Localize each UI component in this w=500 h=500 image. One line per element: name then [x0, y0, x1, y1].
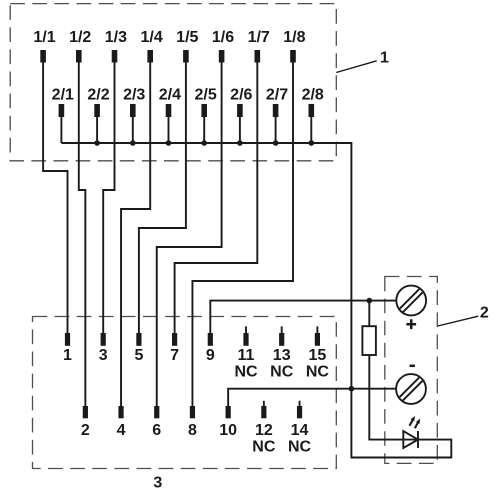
svg-text:2/6: 2/6 — [230, 87, 252, 104]
svg-text:12: 12 — [255, 422, 273, 439]
svg-text:1: 1 — [63, 347, 72, 364]
svg-text:2: 2 — [81, 422, 90, 439]
svg-text:6: 6 — [152, 422, 161, 439]
svg-text:2: 2 — [480, 305, 489, 322]
svg-text:3: 3 — [153, 475, 162, 492]
svg-text:2/7: 2/7 — [266, 87, 288, 104]
svg-text:1/7: 1/7 — [248, 29, 270, 46]
svg-text:NC: NC — [252, 439, 276, 456]
svg-text:1/1: 1/1 — [33, 29, 55, 46]
svg-text:NC: NC — [288, 439, 312, 456]
svg-text:1/6: 1/6 — [212, 29, 234, 46]
svg-text:10: 10 — [219, 422, 237, 439]
svg-text:9: 9 — [206, 347, 215, 364]
svg-text:5: 5 — [134, 347, 143, 364]
svg-text:1: 1 — [380, 50, 389, 67]
svg-text:14: 14 — [291, 422, 309, 439]
svg-text:NC: NC — [234, 364, 258, 381]
svg-text:1/4: 1/4 — [140, 29, 162, 46]
svg-text:NC: NC — [270, 364, 294, 381]
svg-text:1/3: 1/3 — [105, 29, 127, 46]
svg-text:7: 7 — [170, 347, 179, 364]
svg-text:11: 11 — [238, 347, 255, 364]
svg-text:8: 8 — [188, 422, 197, 439]
svg-text:1/8: 1/8 — [283, 29, 305, 46]
svg-text:1/5: 1/5 — [176, 29, 198, 46]
svg-text:13: 13 — [273, 347, 291, 364]
svg-text:2/2: 2/2 — [87, 87, 109, 104]
svg-text:2/4: 2/4 — [159, 87, 181, 104]
svg-text:4: 4 — [117, 422, 126, 439]
svg-text:2/1: 2/1 — [52, 87, 74, 104]
svg-text:3: 3 — [99, 347, 108, 364]
svg-text:2/8: 2/8 — [302, 87, 324, 104]
svg-text:NC: NC — [306, 364, 330, 381]
svg-text:1/2: 1/2 — [69, 29, 91, 46]
svg-text:15: 15 — [309, 347, 327, 364]
svg-text:2/5: 2/5 — [194, 87, 216, 104]
svg-text:2/3: 2/3 — [123, 87, 145, 104]
